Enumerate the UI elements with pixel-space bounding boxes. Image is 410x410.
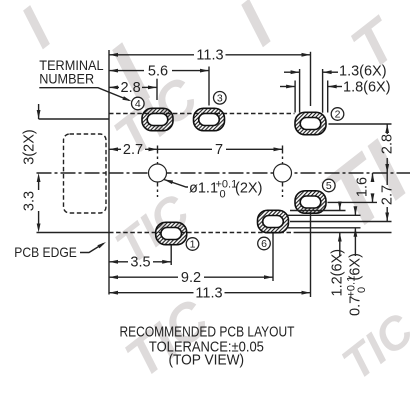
svg-text:(6X): (6X) — [348, 253, 364, 280]
svg-text:2.7: 2.7 — [123, 142, 143, 158]
svg-text:11.3: 11.3 — [196, 48, 223, 64]
svg-text:4: 4 — [135, 98, 141, 110]
svg-text:5: 5 — [326, 180, 332, 192]
svg-text:9.2: 9.2 — [181, 270, 201, 286]
svg-text:0.7: 0.7 — [348, 296, 364, 316]
svg-text:3: 3 — [217, 93, 223, 105]
svg-text:ø1.1: ø1.1 — [189, 181, 218, 197]
svg-text:PCB EDGE: PCB EDGE — [14, 244, 77, 260]
svg-text:3(2X): 3(2X) — [22, 129, 38, 164]
svg-text:(TOP VIEW): (TOP VIEW) — [168, 352, 244, 369]
svg-text:11.3: 11.3 — [195, 286, 222, 302]
svg-text:3.3: 3.3 — [22, 191, 38, 211]
svg-text:1.3(6X): 1.3(6X) — [339, 64, 387, 80]
svg-text:5.6: 5.6 — [148, 63, 168, 79]
svg-text:0: 0 — [220, 189, 226, 201]
svg-text:2.8: 2.8 — [121, 80, 141, 96]
svg-text:7: 7 — [215, 142, 223, 158]
svg-text:2.8: 2.8 — [380, 134, 396, 154]
svg-text:1.6: 1.6 — [355, 177, 371, 197]
svg-text:1.2(6X): 1.2(6X) — [330, 249, 346, 297]
svg-text:2: 2 — [335, 109, 341, 121]
svg-text:1.8(6X): 1.8(6X) — [343, 79, 391, 95]
svg-text:6: 6 — [261, 238, 267, 250]
svg-text:NUMBER: NUMBER — [39, 70, 94, 86]
svg-text:3.5: 3.5 — [130, 255, 150, 271]
svg-text:2.7: 2.7 — [380, 185, 396, 205]
svg-text:1: 1 — [190, 239, 196, 251]
svg-text:(2X): (2X) — [235, 181, 262, 197]
svg-text:0: 0 — [356, 287, 368, 293]
